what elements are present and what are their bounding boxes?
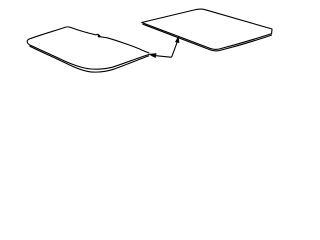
right panel outline (top face and right end face) [142,9,272,49]
right panel thickness line [143,24,272,51]
arrowhead to right panel bottom edge [175,37,179,43]
knot on left panel rear edge [98,35,101,38]
arrowhead to left panel corner [149,54,157,58]
left panel thickness line [30,46,149,72]
left panel outline (top face) [27,27,149,69]
leader line [156,43,177,58]
